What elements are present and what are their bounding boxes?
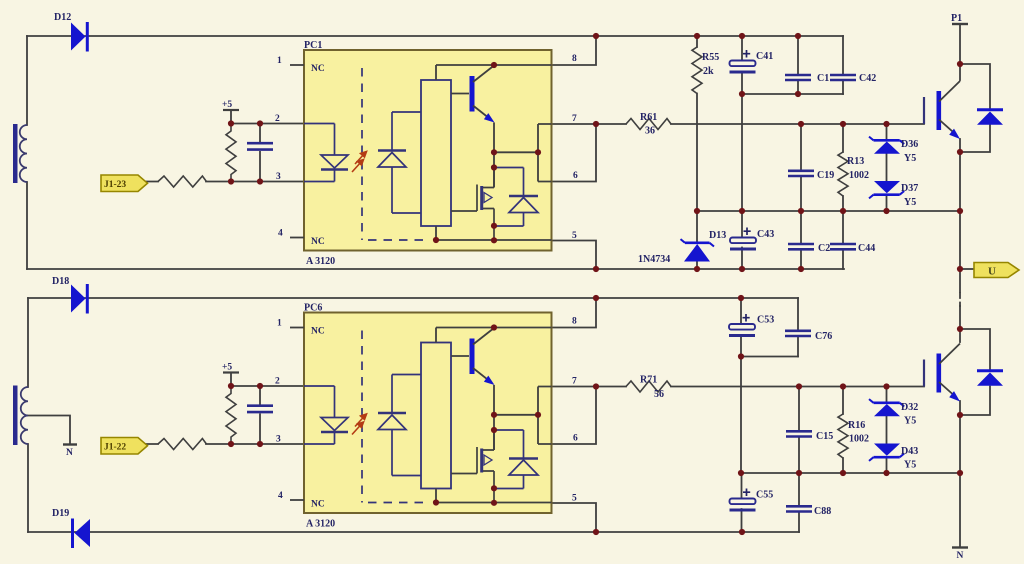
node bottom bus2 x742 [739, 529, 745, 535]
resistor R61 [626, 112, 671, 137]
transistor M (output MOSFET) PC6 [451, 430, 494, 503]
wire pin2 node to +5 (bottom) [231, 373, 304, 387]
node igbt2 emitter [957, 412, 963, 418]
wire mid gate bus (R61 line) [552, 123, 925, 125]
svg-text:C42: C42 [859, 73, 876, 84]
+5 power symbol (bottom) [222, 363, 239, 373]
transistor IGBT bottom [924, 344, 960, 402]
node igbt1 emitter [957, 149, 963, 155]
wire mid gate bus (R71 line) [552, 386, 925, 388]
node emitter PC1 b [491, 164, 497, 170]
wire amp top to pin8 rail (inside PC6) [436, 328, 552, 343]
node U [957, 266, 963, 272]
wire R13 column [842, 124, 844, 211]
wire left rail bottom section [27, 298, 29, 532]
isolation dashed line PC1 [362, 68, 430, 240]
capacitor C2 [788, 243, 830, 254]
resistor pull-up (bottom) [226, 386, 236, 444]
wire R16 column [842, 387, 844, 474]
svg-text:+5: +5 [222, 100, 232, 110]
svg-text:7: 7 [572, 377, 577, 387]
capacitor C42 [830, 73, 876, 84]
diode D18 [52, 276, 89, 314]
capacitor C55 (polarized) [730, 489, 774, 511]
svg-text:6: 6 [573, 171, 578, 181]
node C1 bottom [795, 91, 801, 97]
svg-text:5: 5 [572, 494, 577, 504]
node lower bus x801 [798, 208, 804, 214]
wire pin3 input line [146, 181, 304, 183]
node top bus x742 [739, 33, 745, 39]
node amp gnd PC6 [433, 499, 439, 505]
op-amp/optocoupler U PC6 (A3120) body [304, 303, 552, 530]
wire emitter column PC1 [494, 123, 552, 188]
inductor winding (top transformer) [13, 124, 27, 183]
wire C41/C1/C42 sub-bracket [742, 93, 843, 95]
node +5 top [228, 120, 234, 126]
node source PC6 b [491, 500, 497, 506]
wire U node to bottom IGBT collector [959, 330, 961, 342]
capacitor C44 [830, 243, 875, 254]
node lower bus2 x799 [796, 470, 802, 476]
svg-text:R55: R55 [702, 52, 719, 63]
svg-text:2: 2 [275, 377, 280, 387]
svg-text:N: N [66, 448, 73, 458]
svg-text:D12: D12 [54, 12, 71, 23]
wire bottom IGBT emitter column to N [959, 401, 961, 548]
svg-text:8: 8 [572, 54, 577, 64]
wire C53/C76 sub-bracket [741, 356, 798, 358]
wire pin3 input line (bottom) [146, 443, 304, 445]
svg-text:+5: +5 [222, 363, 232, 373]
diode (clamp) inside PC1 [494, 168, 538, 227]
svg-text:C44: C44 [858, 243, 875, 254]
svg-text:8: 8 [572, 317, 577, 327]
svg-text:1002: 1002 [849, 170, 869, 181]
svg-text:PC6: PC6 [304, 303, 322, 314]
wire D36 D37 column [886, 124, 888, 211]
svg-text:D37: D37 [901, 183, 918, 194]
svg-text:36: 36 [645, 126, 655, 137]
svg-text:R13: R13 [847, 156, 864, 167]
diode D12 [54, 12, 89, 52]
node pin5 ext 2 [593, 529, 599, 535]
svg-text:5: 5 [572, 231, 577, 241]
svg-text:1: 1 [277, 319, 282, 329]
freewheel diode top IGBT [977, 110, 1003, 125]
capacitor C76 [785, 331, 832, 342]
pin 1 PC6 [277, 319, 304, 329]
svg-text:PC1: PC1 [304, 40, 322, 51]
wire pin8 to top bus (bottom) [552, 298, 597, 328]
pin 1 PC1 [277, 56, 304, 66]
node igbt1 collector [957, 61, 963, 67]
svg-text:1002: 1002 [849, 434, 869, 445]
node gate bus2 D32 [883, 383, 889, 389]
wire dash break below U node [959, 293, 961, 306]
node gate bus2 C15 [796, 383, 802, 389]
capacitor C19 [788, 170, 834, 181]
capacitor input filter (top) [247, 124, 273, 182]
wire pin5 to bottom bus [552, 241, 597, 270]
resistor R16 1002 [838, 414, 869, 458]
zener diode D43 Y5 [869, 444, 918, 471]
LED inside PC6 [304, 386, 348, 444]
node pin5 ext [593, 266, 599, 272]
wire C53/C55 column [740, 298, 743, 532]
node pin3 b [257, 178, 263, 184]
wire C42 column [842, 36, 844, 94]
svg-text:C19: C19 [817, 170, 834, 181]
svg-text:3: 3 [276, 435, 281, 445]
wire bottom bus (bottom section) [28, 531, 799, 533]
capacitor C43 (polarized) [730, 228, 774, 250]
wire C55 top lead [741, 473, 743, 499]
wire freewheel diode branch top IGBT [960, 64, 990, 152]
wire transformer centre tap to N [28, 416, 70, 445]
node +5 bottom [228, 383, 234, 389]
resistor (series input, top) [158, 176, 206, 187]
node lower bus x843 [840, 208, 846, 214]
transistor M (output MOSFET) PC1 [451, 168, 494, 241]
svg-text:J1-23: J1-23 [104, 180, 126, 190]
node source PC1 b [491, 237, 497, 243]
capacitor C15 [786, 431, 833, 442]
svg-text:C88: C88 [814, 506, 831, 517]
node top bus x697 [694, 33, 700, 39]
node pin7 ext [593, 121, 599, 127]
node cap top [257, 120, 263, 126]
capacitor C1 [785, 73, 829, 84]
amplifier block PC1 [421, 80, 451, 226]
zener diode D13 1N4734 [638, 230, 726, 265]
svg-text:NC: NC [311, 500, 325, 510]
svg-text:NC: NC [311, 237, 325, 247]
zener diode D36 Y5 [869, 137, 918, 164]
svg-text:Y5: Y5 [904, 416, 916, 427]
node lower bus2 x960 [957, 470, 963, 476]
svg-text:U: U [988, 266, 996, 278]
node emitter PC6 a [491, 412, 497, 418]
wire lower bus (bottom section) [741, 472, 960, 474]
svg-text:C55: C55 [756, 490, 773, 501]
node bracket PC6 [535, 412, 541, 418]
node lower bus2 x886 [883, 470, 889, 476]
svg-text:C1: C1 [817, 73, 829, 84]
transistor Q (output BJT) PC6 [451, 328, 495, 385]
node gate bus R13 [840, 121, 846, 127]
node amp gnd PC1 [433, 237, 439, 243]
wire P1 to IGBT collector [959, 24, 961, 80]
LED inside PC1 [304, 124, 348, 182]
svg-text:D32: D32 [901, 402, 918, 413]
diode (clamp) inside PC6 [494, 430, 538, 489]
+5 power symbol (top) [222, 100, 239, 110]
node bracket PC1 [535, 149, 541, 155]
svg-text:N: N [957, 551, 964, 561]
wire left rail top section [26, 36, 28, 269]
svg-text:D18: D18 [52, 276, 69, 287]
power port N (bottom right) [952, 548, 968, 562]
amplifier block PC6 [421, 343, 451, 489]
svg-text:C15: C15 [816, 431, 833, 442]
svg-text:D43: D43 [901, 446, 918, 457]
transistor Q (output BJT) PC1 [451, 66, 495, 123]
node pin3 a [228, 178, 234, 184]
pin 4 PC6 [278, 491, 304, 501]
wire pin5 rail inside PC6 [436, 489, 552, 503]
node lower bus2 x741 [738, 470, 744, 476]
freewheel diode bottom IGBT [977, 371, 1003, 386]
net label tag J1-23 [101, 175, 148, 192]
svg-text:Y5: Y5 [904, 460, 916, 471]
node lower bus x886 [883, 208, 889, 214]
resistor (series input, bottom) [158, 439, 206, 450]
svg-text:Y5: Y5 [904, 197, 916, 208]
wire R55 column [696, 36, 698, 211]
wire pin5 to bottom bus (bottom) [552, 503, 597, 532]
capacitor input filter (bottom) [247, 386, 273, 444]
svg-text:7: 7 [572, 114, 577, 124]
node source PC1 a [491, 223, 497, 229]
node C41 bottom [739, 91, 745, 97]
zener diode D32 Y5 [869, 399, 918, 426]
svg-text:A 3120: A 3120 [306, 256, 335, 267]
photodiode inside PC1 [378, 112, 421, 213]
svg-text:NC: NC [311, 327, 325, 337]
net label tag U [974, 263, 1019, 278]
node C53 bottom [738, 353, 744, 359]
resistor pull-up (top) [226, 124, 236, 182]
svg-text:R71: R71 [640, 375, 657, 386]
wire pin6 bracket exterior [552, 124, 597, 182]
svg-text:C43: C43 [757, 229, 774, 240]
svg-text:C2: C2 [818, 243, 830, 254]
wire D13 column [696, 211, 698, 269]
svg-text:R61: R61 [640, 112, 657, 123]
node bottom bus x697 [694, 266, 700, 272]
node top bus x798 [795, 33, 801, 39]
wire bottom bus (top section, pin5/emitter rail) [27, 268, 844, 270]
node pin7 ext 2 [593, 383, 599, 389]
wire emitter column PC6 [494, 385, 552, 450]
capacitor C53 (polarized) [729, 314, 774, 336]
node igbt2 collector [957, 326, 963, 332]
svg-text:C53: C53 [757, 315, 774, 326]
capacitor C41 (polarized) [730, 50, 774, 72]
photodiode inside PC6 [378, 375, 421, 476]
node cap bottom [257, 383, 263, 389]
svg-text:1N4734: 1N4734 [638, 254, 670, 265]
node top bus x596 [593, 33, 599, 39]
wire C43 column [741, 211, 743, 238]
wire C44 column [842, 211, 844, 269]
svg-text:P1: P1 [951, 13, 962, 24]
node emitter PC1 a [491, 149, 497, 155]
node gate bus D36 [883, 121, 889, 127]
svg-text:NC: NC [311, 64, 325, 74]
power port P1 [951, 13, 968, 24]
net label tag J1-22 [101, 438, 148, 455]
node lower bus x697 [694, 208, 700, 214]
resistor R71 [626, 375, 671, 401]
wire D32 D43 column [886, 387, 888, 474]
wire C76 column [797, 298, 799, 357]
light emission arrows PC6 [352, 414, 367, 435]
wire C15 column [798, 387, 800, 474]
node top bus2 x596 [593, 295, 599, 301]
svg-text:4: 4 [278, 491, 283, 501]
wire C2 column [800, 211, 802, 269]
wire top bus (top section) [27, 35, 843, 37]
wire C88 column [798, 473, 800, 532]
node pin3 d [257, 441, 263, 447]
svg-text:1: 1 [277, 56, 282, 66]
node top bus2 x741 [738, 295, 744, 301]
svg-text:56: 56 [654, 389, 664, 400]
resistor R13 1002 [838, 152, 869, 196]
wire C19 column [800, 124, 802, 211]
resistor R55 2k [692, 47, 719, 93]
node gate bus C19 [798, 121, 804, 127]
wire pin5 rail inside PC1 [436, 226, 552, 240]
transformer winding (bottom, with centre tap) [13, 386, 28, 446]
wire lower bus (top section -VEE rail) [697, 210, 960, 212]
svg-text:C76: C76 [815, 331, 832, 342]
node bottom bus x801 [798, 266, 804, 272]
isolation dashed line PC6 [362, 331, 430, 503]
svg-text:4: 4 [278, 229, 283, 239]
transistor IGBT top [924, 81, 960, 139]
svg-text:2: 2 [275, 114, 280, 124]
node pin3 c [228, 441, 234, 447]
svg-text:D19: D19 [52, 508, 69, 519]
pin 4 PC1 [278, 229, 304, 239]
svg-text:R16: R16 [848, 420, 865, 431]
svg-text:Y5: Y5 [904, 153, 916, 164]
svg-text:C41: C41 [756, 51, 773, 62]
wire amp top to pin8 rail (inside PC1) [436, 65, 552, 80]
svg-text:J1-22: J1-22 [104, 443, 126, 453]
wire top bus (bottom section) [28, 297, 798, 299]
node emitter PC6 b [491, 427, 497, 433]
node lower bus2 x843 [840, 470, 846, 476]
op-amp/optocoupler U PC1 (A3120) body [304, 40, 552, 267]
svg-text:D13: D13 [709, 230, 726, 241]
diode D19 [52, 508, 90, 548]
svg-text:3: 3 [276, 172, 281, 182]
wire U tag stub [960, 268, 974, 270]
svg-text:6: 6 [573, 434, 578, 444]
node lower bus x742 [739, 208, 745, 214]
svg-text:A 3120: A 3120 [306, 519, 335, 530]
wire top IGBT emitter column to U [959, 139, 961, 330]
node collector PC1 [491, 62, 497, 68]
node gate bus2 R16 [840, 383, 846, 389]
svg-text:2k: 2k [703, 66, 714, 77]
wire pin8 to top bus [552, 36, 597, 65]
power port N (transformer tap) [63, 445, 77, 459]
wire pin2 node to +5 [231, 110, 304, 124]
svg-text:D36: D36 [901, 139, 918, 150]
node bottom bus x742 [739, 266, 745, 272]
node lower bus x960 [957, 208, 963, 214]
node source PC6 a [491, 485, 497, 491]
zener diode D37 Y5 [869, 181, 918, 208]
wire pin6 bracket exterior (bottom) [552, 387, 597, 445]
node collector PC6 [491, 324, 497, 330]
wire freewheel diode branch bottom IGBT [960, 329, 990, 415]
wire C41/C43 column [741, 36, 743, 269]
light emission arrows PC1 [352, 152, 367, 173]
capacitor C88 [786, 506, 831, 517]
wire C1 column [797, 36, 799, 94]
